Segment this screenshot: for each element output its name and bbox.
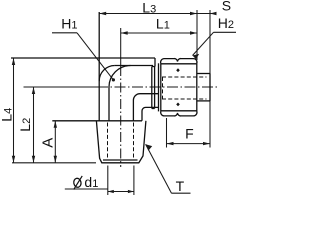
svg-text:S: S (222, 0, 231, 13)
svg-text:T: T (176, 178, 185, 194)
svg-text:F: F (185, 125, 194, 141)
svg-text:A: A (40, 138, 57, 148)
svg-text:L4: L4 (0, 108, 14, 122)
